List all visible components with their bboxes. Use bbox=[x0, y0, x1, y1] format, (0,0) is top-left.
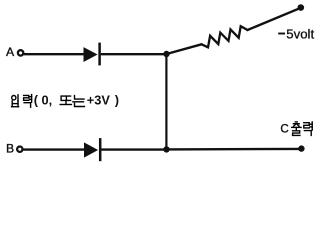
wire D2 to bottom junction bbox=[101, 148, 165, 150]
terminal -5volt (filled dot) bbox=[298, 4, 305, 11]
diode D1 (anode A side) bbox=[84, 43, 100, 66]
svg-text:): ) bbox=[115, 93, 119, 108]
wire B to diode D2 bbox=[23, 148, 85, 150]
wire D1 to junction bbox=[101, 53, 165, 55]
resistor (zigzag) bbox=[202, 26, 248, 47]
svg-text:+3V: +3V bbox=[87, 93, 111, 108]
terminal A (open circle) bbox=[18, 50, 23, 55]
hangul label 출력 (output) bbox=[292, 122, 313, 135]
wire bottom junction to C output bbox=[167, 148, 300, 151]
wire A to diode D1 bbox=[24, 53, 84, 55]
svg-text:( 0,: ( 0, bbox=[34, 93, 53, 108]
label -5volt bbox=[278, 33, 285, 35]
terminal C (filled dot) bbox=[298, 145, 304, 151]
terminal B (open circle) bbox=[17, 147, 22, 152]
hangul 력 (output label) bbox=[304, 122, 312, 135]
junction node (top) bbox=[163, 51, 169, 57]
hangul 입 bbox=[12, 95, 19, 107]
diode D2 (anode B side) bbox=[84, 138, 100, 161]
input label: Korean "입력( 0, 또는 +3V )" bbox=[12, 95, 32, 108]
hangul 또 bbox=[60, 96, 71, 104]
hangul 출 bbox=[292, 122, 301, 135]
wire junction to resistor bbox=[167, 44, 202, 54]
wire resistor to -5volt terminal bbox=[248, 8, 301, 30]
vertical wire joining top and bottom junctions bbox=[165, 54, 167, 150]
svg-text:5volt: 5volt bbox=[286, 26, 314, 41]
svg-text:A: A bbox=[6, 45, 15, 59]
hangul 는 bbox=[73, 96, 85, 107]
junction node (bottom) bbox=[163, 146, 169, 152]
svg-text:C: C bbox=[280, 123, 288, 136]
svg-text:B: B bbox=[6, 141, 14, 155]
hangul 력 bbox=[24, 95, 32, 108]
